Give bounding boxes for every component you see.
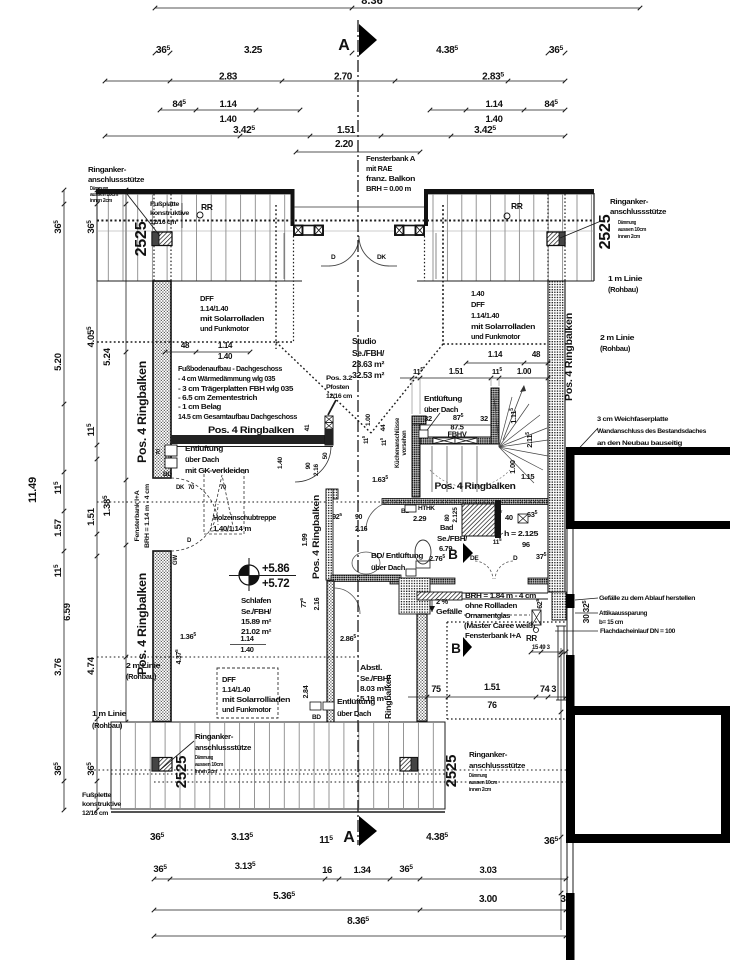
svg-text:1.51: 1.51 — [484, 682, 500, 692]
svg-text:(Rohbau): (Rohbau) — [608, 285, 639, 294]
svg-text:1.40: 1.40 — [218, 352, 233, 361]
recess sill line — [294, 206, 424, 208]
svg-text:DK: DK — [377, 254, 386, 261]
svg-text:BD: BD — [163, 471, 172, 478]
svg-text:DFF: DFF — [471, 300, 485, 309]
svg-text:DFF: DFF — [222, 675, 236, 684]
svg-text:8.36: 8.36 — [361, 0, 382, 7]
stair bottom wall — [420, 437, 492, 444]
svg-text:50: 50 — [322, 452, 329, 459]
recess side wall right — [424, 189, 428, 226]
hall wall stub left of W6 — [326, 489, 338, 499]
wall W8 window band — [417, 592, 462, 600]
svg-text:anschlussstütze: anschlussstütze — [610, 207, 666, 216]
svg-text:GW: GW — [173, 555, 179, 565]
dotted wall projection right — [547, 194, 549, 281]
existing bldg room — [571, 711, 726, 839]
svg-text:2.16: 2.16 — [313, 463, 320, 475]
existing bldg top bar — [566, 447, 730, 455]
svg-text:75: 75 — [431, 684, 441, 694]
shower hatch — [462, 504, 495, 536]
svg-text:D: D — [331, 254, 336, 261]
svg-text:ohne Rollladen: ohne Rollladen — [465, 601, 518, 610]
left dim chain 2 — [63, 190, 65, 810]
door arc bottom hall — [334, 588, 360, 614]
svg-text:Holzeinschubtreppe: Holzeinschubtreppe — [213, 515, 276, 522]
svg-text:16: 16 — [322, 865, 332, 876]
svg-text:franz. Balkon: franz. Balkon — [366, 174, 416, 183]
svg-text:Wandanschluss des Bestandsdach: Wandanschluss des Bestandsdaches — [597, 428, 707, 435]
svg-text:innen 2cm: innen 2cm — [618, 234, 641, 240]
recess side wall left — [291, 189, 295, 226]
svg-text:1.51: 1.51 — [86, 507, 97, 526]
leader bottom — [160, 741, 194, 770]
leader right ringanker — [560, 221, 601, 238]
svg-text:DK: DK — [176, 485, 185, 491]
svg-text:1.40/1.14 m: 1.40/1.14 m — [213, 526, 251, 533]
svg-text:2 m Linie: 2 m Linie — [600, 333, 634, 342]
svg-text:3.03: 3.03 — [479, 865, 496, 876]
svg-text:Dämmung: Dämmung — [195, 755, 213, 761]
svg-text:aussen 10cm: aussen 10cm — [469, 780, 498, 786]
svg-text:B: B — [451, 641, 461, 656]
svg-text:74 3: 74 3 — [540, 684, 556, 694]
dotted 2m line bottom — [97, 656, 360, 658]
svg-text:2525: 2525 — [173, 756, 190, 789]
svg-text:- 1 cm Belag: - 1 cm Belag — [178, 402, 221, 411]
dotted proj vertical right — [442, 205, 444, 344]
svg-text:2.29: 2.29 — [413, 514, 426, 523]
svg-text:DFF: DFF — [200, 294, 214, 303]
svg-text:70: 70 — [220, 485, 227, 491]
svg-text:1.15: 1.15 — [521, 472, 534, 481]
svg-text:1.51: 1.51 — [449, 367, 464, 376]
svg-text:Gefälle zu dem Ablauf herstell: Gefälle zu dem Ablauf herstellen — [599, 596, 696, 602]
svg-text:90: 90 — [355, 514, 363, 521]
svg-text:3.25: 3.25 — [244, 45, 263, 56]
Fussplatte square left — [152, 232, 172, 246]
svg-text:Gefälle: Gefälle — [436, 607, 462, 616]
dashed door arcs bath — [475, 561, 493, 579]
svg-text:Attikaaussparung: Attikaaussparung — [599, 611, 648, 617]
svg-text:Ornamentglas: Ornamentglas — [465, 611, 510, 620]
svg-text:B: B — [448, 547, 458, 562]
terrace deck stripes right — [433, 194, 591, 281]
svg-text:anschlussstütze: anschlussstütze — [195, 743, 251, 752]
svg-text:mit GK verkleiden: mit GK verkleiden — [185, 466, 250, 475]
dotted 2m line right — [443, 343, 548, 345]
band level line — [97, 230, 594, 232]
svg-text:Pos. 4 Ringbalken: Pos. 4 Ringbalken — [435, 481, 516, 491]
svg-text:mit RAE: mit RAE — [366, 164, 392, 173]
svg-text:1.14: 1.14 — [485, 99, 503, 110]
svg-text:Entlüftung: Entlüftung — [185, 444, 224, 453]
big wall mass SW of bath — [399, 578, 430, 614]
bottom band stripes — [120, 723, 433, 808]
svg-text:Pfosten: Pfosten — [326, 384, 349, 391]
svg-text:41: 41 — [304, 424, 311, 431]
svg-text:23.63 m²: 23.63 m² — [352, 360, 385, 369]
svg-text:2 m Linie: 2 m Linie — [126, 661, 160, 670]
svg-text:innen 2cm: innen 2cm — [90, 198, 113, 204]
svg-text:2 %: 2 % — [436, 597, 449, 606]
svg-text:Fensterbank I+A: Fensterbank I+A — [465, 631, 522, 640]
svg-text:2525: 2525 — [133, 221, 150, 256]
svg-text:1.14/1.40: 1.14/1.40 — [222, 685, 250, 694]
dotted roof diagonals — [276, 342, 371, 433]
door arc under beam — [295, 446, 331, 482]
lintel X boxes — [433, 438, 455, 444]
svg-text:über Dach: über Dach — [337, 709, 372, 718]
bottom band bottom edge — [111, 811, 445, 813]
window right terrace — [557, 626, 559, 700]
svg-text:Ringanker-: Ringanker- — [195, 732, 234, 741]
svg-text:RR: RR — [511, 201, 523, 211]
svg-text:3.76: 3.76 — [53, 658, 64, 676]
wall right of shower — [495, 500, 501, 538]
dotted projection rect SE — [446, 622, 448, 719]
svg-text:40: 40 — [505, 513, 513, 522]
svg-text:- 4 cm Wärmedämmung wlg 035: - 4 cm Wärmedämmung wlg 035 — [178, 374, 275, 383]
svg-text:Dämmung: Dämmung — [618, 220, 636, 226]
svg-text:5.20: 5.20 — [53, 353, 64, 371]
window segment — [566, 529, 568, 594]
svg-text:h = 2.125: h = 2.125 — [504, 529, 538, 538]
svg-text:76: 76 — [487, 700, 497, 710]
svg-text:Pos. 4 Ringbalken: Pos. 4 Ringbalken — [311, 495, 322, 579]
door arc hall to bath — [366, 502, 394, 530]
svg-text:BD/ Entlüftung: BD/ Entlüftung — [371, 551, 424, 560]
door arc D top — [329, 236, 359, 266]
svg-text:Küchenanschlüsse: Küchenanschlüsse — [395, 417, 401, 468]
svg-text:Pos. 4 Ringbalken: Pos. 4 Ringbalken — [564, 313, 575, 401]
svg-text:A: A — [338, 37, 350, 54]
svg-text:Dämmung: Dämmung — [469, 773, 487, 779]
svg-text:Ringanker-: Ringanker- — [469, 750, 508, 759]
svg-text:3 cm Weichfaserplatte: 3 cm Weichfaserplatte — [597, 416, 669, 423]
window element right — [395, 226, 424, 236]
svg-text:mit Solarrolladen: mit Solarrolladen — [471, 322, 536, 331]
svg-text:aussen 10cm: aussen 10cm — [195, 762, 224, 768]
svg-text:1.99: 1.99 — [302, 533, 309, 546]
svg-text:70: 70 — [188, 485, 195, 491]
svg-text:5.24: 5.24 — [102, 347, 113, 366]
svg-text:14.5 cm Gesamtaufbau Dachgesch: 14.5 cm Gesamtaufbau Dachgeschoss — [178, 412, 297, 421]
svg-text:90: 90 — [305, 462, 312, 469]
svg-text:15 49 3: 15 49 3 — [532, 645, 551, 651]
svg-text:1.00: 1.00 — [517, 367, 532, 376]
door arc DK top — [359, 236, 389, 266]
divider wall W9 upper — [326, 489, 333, 580]
svg-text:1.40: 1.40 — [240, 645, 253, 654]
svg-text:Flachdacheinlauf DN = 100: Flachdacheinlauf DN = 100 — [600, 629, 676, 635]
svg-text:+5.72: +5.72 — [262, 578, 289, 590]
svg-text:RR: RR — [201, 202, 213, 212]
svg-text:3.00: 3.00 — [479, 894, 498, 905]
DFF dashed box bottom — [217, 668, 278, 718]
svg-text:A: A — [343, 829, 355, 846]
svg-text:BRH = 1.14 m - 4 cm: BRH = 1.14 m - 4 cm — [144, 484, 151, 548]
svg-text:1.14: 1.14 — [240, 634, 254, 643]
svg-text:Se./FBH/: Se./FBH/ — [352, 349, 385, 358]
svg-text:12/16 cm: 12/16 cm — [82, 810, 109, 817]
svg-text:2.16: 2.16 — [314, 597, 321, 610]
svg-text:an den Neubau bauseitig: an den Neubau bauseitig — [597, 440, 682, 447]
door arcs left wall — [171, 478, 218, 525]
dotted 2m line left — [97, 501, 548, 503]
svg-text:Studio: Studio — [352, 337, 376, 346]
svg-text:und Funkmotor: und Funkmotor — [471, 332, 520, 341]
terrace dotted line 1m — [97, 220, 594, 222]
svg-text:Entlüftung: Entlüftung — [424, 394, 463, 403]
svg-text:32: 32 — [424, 414, 432, 423]
terrace band outline — [96, 193, 98, 281]
svg-text:HTHK: HTHK — [418, 505, 435, 512]
svg-text:96: 96 — [522, 540, 530, 549]
right vert dim line — [560, 648, 562, 930]
svg-text:über Dach: über Dach — [371, 563, 406, 572]
svg-text:mit Solarrolladen: mit Solarrolladen — [200, 314, 265, 323]
svg-text:Pos. 4 Ringbalken: Pos. 4 Ringbalken — [137, 573, 149, 675]
leader weichfaser — [570, 428, 598, 458]
svg-text:1.40: 1.40 — [219, 114, 236, 125]
svg-text:D: D — [513, 555, 518, 562]
dotted 2m line left — [97, 341, 294, 343]
svg-text:Abstl.: Abstl. — [360, 663, 382, 672]
small window X right — [518, 514, 528, 523]
svg-text:Ringanker-: Ringanker- — [610, 197, 649, 206]
svg-text:mit Solarrolliaden: mit Solarrolliaden — [222, 695, 291, 704]
svg-text:1 m Linie: 1 m Linie — [92, 709, 126, 718]
dotted proj vertical left — [275, 205, 277, 349]
leader to Fussplatte — [127, 194, 160, 236]
bath bottom walls — [390, 578, 455, 584]
svg-text:innen 2cm: innen 2cm — [195, 769, 218, 775]
svg-text:Schlafen: Schlafen — [241, 596, 272, 605]
svg-text:und Funkmotor: und Funkmotor — [200, 324, 249, 333]
svg-text:anschlussstütze: anschlussstütze — [469, 761, 525, 770]
svg-text:2.20: 2.20 — [335, 139, 354, 150]
svg-text:1.14: 1.14 — [488, 350, 503, 359]
svg-text:2.125: 2.125 — [452, 507, 459, 523]
svg-text:12/16 cm: 12/16 cm — [326, 393, 353, 400]
svg-text:Bad: Bad — [440, 523, 454, 532]
svg-text:8.03 m²: 8.03 m² — [360, 684, 387, 693]
svg-text:2525: 2525 — [597, 214, 614, 249]
svg-text:BRH = 1.84 m - 4 cm: BRH = 1.84 m - 4 cm — [465, 591, 537, 600]
svg-text:15.89 m²: 15.89 m² — [241, 617, 272, 626]
compass symbol — [239, 565, 259, 585]
stair arrow — [503, 386, 524, 440]
stair right wall — [491, 388, 499, 444]
left wall lower W2 — [153, 551, 171, 722]
svg-text:Pos. 3.2: Pos. 3.2 — [326, 375, 353, 382]
svg-text:konstruktive: konstruktive — [150, 210, 190, 217]
wall below hall — [331, 575, 401, 582]
svg-text:innen 2cm: innen 2cm — [469, 787, 492, 793]
existing bldg bar2 — [566, 521, 730, 529]
wall W10 — [417, 614, 427, 721]
svg-text:(Rohbau): (Rohbau) — [126, 672, 157, 681]
BD boxes left — [165, 445, 177, 456]
svg-text:12/16 cm: 12/16 cm — [150, 219, 177, 226]
svg-text:BD: BD — [312, 714, 321, 721]
top dimension line 8.36 — [155, 7, 640, 9]
Fussplatte square bottom — [152, 758, 172, 772]
left wall upper W1 — [153, 281, 171, 478]
stair left wall — [412, 416, 420, 497]
svg-text:2.16: 2.16 — [355, 526, 368, 533]
svg-text:DE: DE — [470, 555, 479, 562]
svg-text:11.49: 11.49 — [27, 477, 39, 503]
stair walkline arc — [430, 470, 510, 487]
svg-text:Entlüftung: Entlüftung — [337, 697, 376, 706]
svg-text:1.57: 1.57 — [53, 519, 64, 537]
right wall W3 — [548, 281, 565, 592]
svg-text:Ringanker-: Ringanker- — [88, 165, 127, 174]
svg-text:1.00: 1.00 — [365, 413, 372, 425]
terrace top thick edge left — [96, 189, 293, 194]
svg-text:Fensterbank I+A: Fensterbank I+A — [134, 490, 141, 542]
svg-text:konstruktive: konstruktive — [82, 801, 122, 808]
svg-text:80: 80 — [444, 514, 451, 521]
svg-text:Pos. 4 Ringbalken: Pos. 4 Ringbalken — [208, 425, 295, 436]
svg-text:RR: RR — [526, 634, 537, 643]
svg-text:1.40: 1.40 — [471, 289, 484, 298]
svg-text:1.14/1.40: 1.14/1.40 — [471, 311, 499, 320]
svg-text:1.14: 1.14 — [219, 99, 237, 110]
svg-text:Fußplette: Fußplette — [82, 792, 112, 799]
svg-text:FBHV: FBHV — [447, 430, 466, 439]
wall W6 — [382, 499, 548, 505]
svg-text:6.59: 6.59 — [62, 603, 73, 621]
post Pos 3.2 — [325, 416, 333, 445]
svg-text:aussen 10cm: aussen 10cm — [618, 227, 647, 233]
svg-text:Fußbodenaufbau - Dachgeschoss: Fußbodenaufbau - Dachgeschoss — [178, 364, 282, 373]
svg-text:BRH = 0.00 m: BRH = 0.00 m — [366, 184, 412, 193]
terrace top thick edge right — [424, 189, 594, 194]
stair fan — [432, 395, 548, 492]
window element left — [294, 226, 323, 236]
svg-text:48: 48 — [532, 350, 541, 359]
left dim chain 4 — [125, 190, 127, 722]
svg-text:44: 44 — [380, 424, 387, 431]
reveal lines — [283, 233, 285, 279]
svg-text:2525: 2525 — [443, 755, 460, 788]
svg-text:1.14/1.40: 1.14/1.40 — [200, 304, 228, 313]
svg-text:Fußplatte: Fußplatte — [150, 201, 180, 208]
beam W4 — [171, 435, 325, 444]
SE wall pillar — [552, 592, 566, 620]
dotted lines bottom band — [90, 769, 566, 771]
svg-text:über Dach: über Dach — [185, 455, 220, 464]
svg-text:32: 32 — [480, 414, 488, 423]
svg-text:1.40: 1.40 — [277, 456, 284, 468]
svg-text:(Rohbau): (Rohbau) — [600, 344, 631, 353]
svg-text:70: 70 — [156, 449, 162, 455]
svg-text:1.40: 1.40 — [485, 114, 502, 125]
basin hall — [352, 552, 380, 574]
section line A-A — [357, 20, 359, 845]
svg-text:Se./FBH/: Se./FBH/ — [437, 534, 468, 543]
left dim chain 3 — [96, 190, 98, 810]
svg-text:(Rohbau): (Rohbau) — [92, 721, 123, 730]
svg-text:- 3 cm Trägerplatten FBH wlg 0: - 3 cm Trägerplatten FBH wlg 035 — [178, 384, 293, 393]
bottom terrace outline — [111, 722, 445, 809]
svg-text:2.84: 2.84 — [303, 685, 310, 698]
svg-text:b= 15 cm: b= 15 cm — [599, 620, 623, 626]
svg-text:anschlussstütze: anschlussstütze — [88, 175, 144, 184]
svg-text:Fensterbank A: Fensterbank A — [366, 154, 416, 163]
Fussplatte square right — [547, 232, 565, 246]
Holzeinschubtreppe dashed — [204, 471, 244, 534]
svg-text:1 m Linie: 1 m Linie — [608, 274, 642, 283]
dotted wall projection in band — [153, 194, 155, 281]
X window symbol right — [532, 610, 541, 625]
divider wall W9 lower — [327, 581, 334, 771]
svg-text:4.74: 4.74 — [86, 656, 97, 675]
Fussplatte square bottom right — [400, 758, 418, 772]
svg-text:1.34: 1.34 — [353, 865, 371, 876]
terrace deck stripes left — [108, 194, 284, 281]
svg-text:Se./FBH/: Se./FBH/ — [241, 607, 272, 616]
svg-text:32.53 m²: 32.53 m² — [352, 371, 385, 380]
svg-text:und Funkmotor: und Funkmotor — [222, 705, 271, 714]
svg-text:1.00: 1.00 — [508, 460, 517, 474]
svg-text:1.51: 1.51 — [337, 125, 356, 136]
svg-text:- 6.5 cm Zementestrich: - 6.5 cm Zementestrich — [178, 393, 257, 402]
svg-text:+5.86: +5.86 — [262, 563, 289, 575]
existing bldg vert bar — [566, 447, 575, 529]
toilet — [415, 540, 431, 564]
svg-text:Pos. 4 Ringbalken: Pos. 4 Ringbalken — [137, 361, 149, 463]
svg-text:vorsehen: vorsehen — [402, 430, 408, 456]
